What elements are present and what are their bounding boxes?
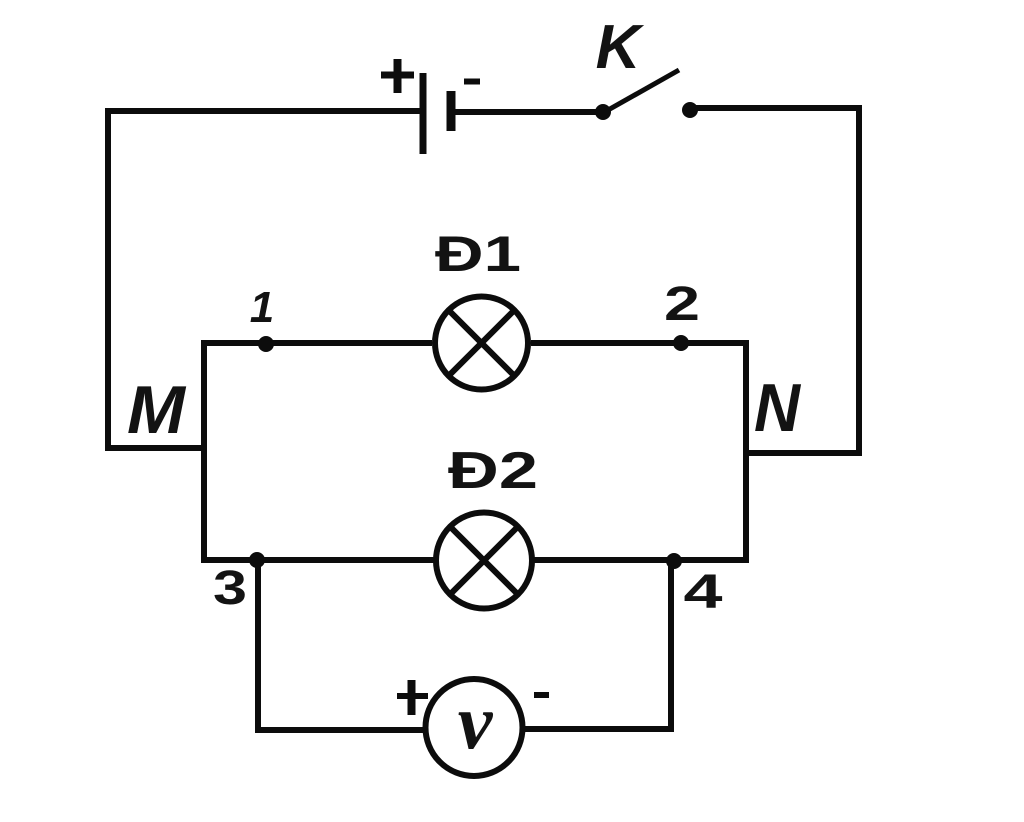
svg-text:2: 2 (664, 278, 700, 331)
svg-text:1: 1 (250, 283, 274, 332)
svg-text:K: K (596, 13, 645, 82)
svg-text:M: M (127, 372, 186, 448)
svg-text:4: 4 (684, 566, 723, 619)
svg-text:3: 3 (213, 562, 247, 615)
svg-text:N: N (754, 370, 802, 446)
svg-text:Đ2: Đ2 (448, 442, 538, 500)
svg-text:v: v (458, 678, 494, 765)
svg-text:Đ1: Đ1 (435, 226, 521, 282)
